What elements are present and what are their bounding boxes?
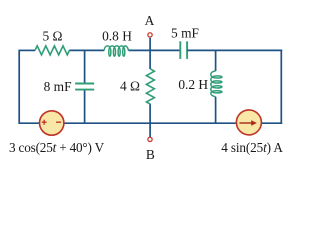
- svg-text:4 Ω: 4 Ω: [120, 79, 140, 94]
- resistor R1 5ohm: [35, 46, 69, 55]
- inductor L2 0.2H: [211, 71, 222, 97]
- svg-text:5 mF: 5 mF: [171, 25, 199, 40]
- wire branch 8mF bottom: [84, 90, 86, 123]
- svg-text:B: B: [146, 147, 155, 162]
- capacitor C1 8mF: [75, 84, 94, 90]
- wire right side: [280, 50, 282, 124]
- wire top between R1 and node1: [69, 49, 104, 51]
- node B terminal: [148, 137, 152, 141]
- wire top between L1 and node A junction: [129, 49, 181, 51]
- inductor L1 0.8H: [104, 46, 128, 56]
- wire node B stub: [149, 123, 151, 137]
- svg-text:0.2 H: 0.2 H: [178, 77, 208, 92]
- capacitor C2 5mF: [180, 41, 187, 59]
- wire node A stub down to resistor: [149, 38, 151, 69]
- wire bottom-left to source: [19, 122, 39, 124]
- svg-text:4 sin(25t) A: 4 sin(25t) A: [221, 140, 283, 155]
- svg-text:5 Ω: 5 Ω: [43, 29, 63, 44]
- svg-text:0.8 H: 0.8 H: [102, 29, 132, 44]
- wire top right of C2: [187, 49, 282, 51]
- resistor R2 4ohm: [146, 69, 154, 104]
- svg-text:A: A: [145, 13, 155, 28]
- wire branch 8mF top: [84, 50, 86, 82]
- wire branch 0.2H top: [215, 50, 217, 71]
- svg-text:8 mF: 8 mF: [44, 79, 72, 94]
- node A terminal: [148, 33, 152, 37]
- svg-text:3 cos(25t + 40°) V: 3 cos(25t + 40°) V: [9, 140, 105, 155]
- wire top-left segment: [19, 49, 35, 51]
- wire branch 0.2H bottom: [215, 97, 217, 123]
- current source I1: [236, 110, 261, 135]
- wire below R2 to bottom: [149, 104, 151, 123]
- wire left side: [18, 50, 20, 124]
- wire bottom-right of source: [262, 122, 282, 124]
- wire bottom middle: [65, 122, 237, 124]
- voltage source V1: [40, 111, 64, 135]
